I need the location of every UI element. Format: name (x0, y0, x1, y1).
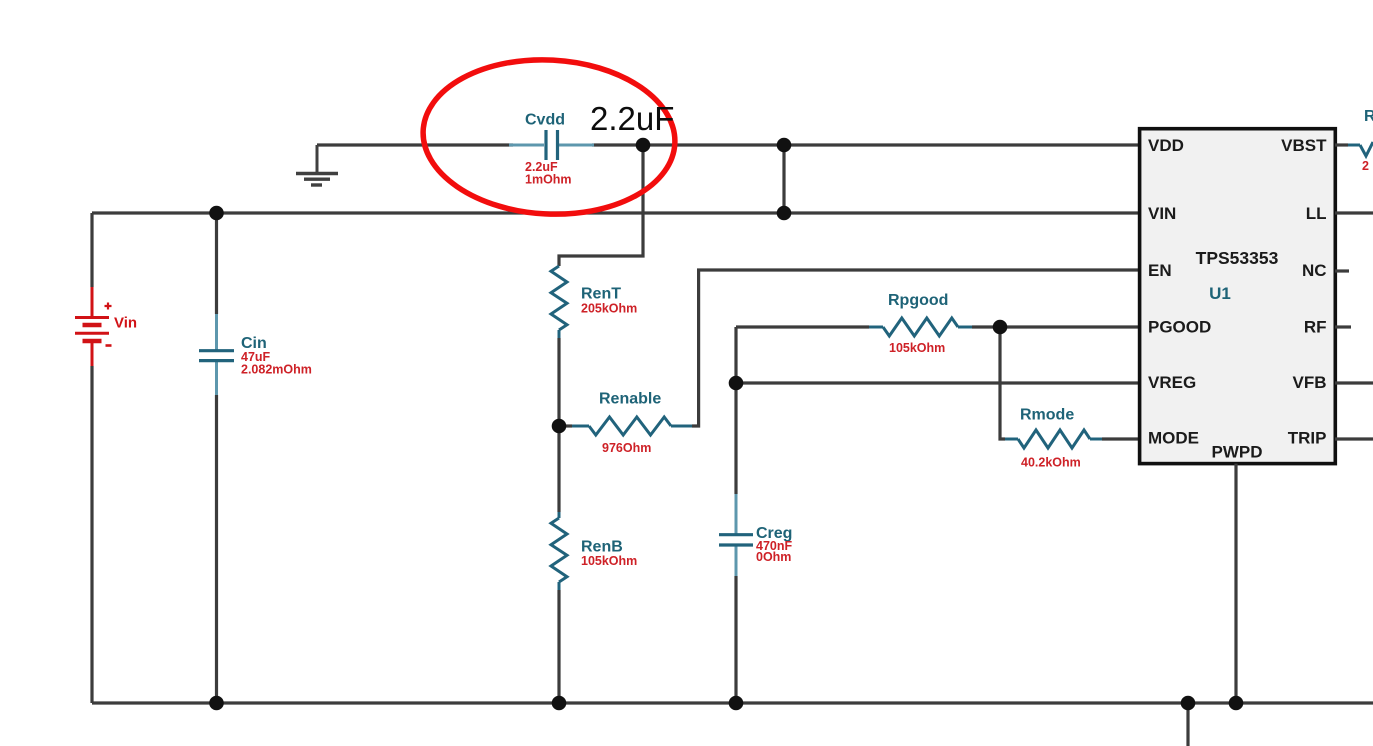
svg-text:LL: LL (1306, 204, 1327, 223)
svg-text:VDD: VDD (1148, 136, 1184, 155)
node junction dots (209, 138, 1243, 711)
wire Rmode to MODE pin (1102, 437, 1140, 440)
wire TRIP stub (1335, 437, 1373, 440)
wire bottom GND net (92, 701, 1373, 704)
resistor Renable (559, 424, 572, 427)
svg-text:976Ohm: 976Ohm (602, 441, 651, 455)
svg-text:NC: NC (1302, 261, 1327, 280)
node PGOOD-Rmode (993, 320, 1008, 335)
voltage source Vin (75, 287, 112, 366)
capacitor Cin (199, 213, 234, 703)
svg-text:PGOOD: PGOOD (1148, 318, 1211, 337)
wire VREG net (736, 381, 1140, 384)
svg-text:VFB: VFB (1293, 373, 1327, 392)
node Creg bottom (729, 696, 744, 711)
svg-text:Rpgood: Rpgood (888, 292, 948, 309)
svg-text:105kOhm: 105kOhm (581, 554, 637, 568)
wire PWPD to GND (1234, 464, 1237, 703)
op-amp U1 IC box (1140, 129, 1336, 464)
node GND stub (1181, 696, 1196, 711)
wire RenT to node (557, 338, 560, 426)
svg-text:Vin: Vin (114, 315, 137, 332)
svg-text:105kOhm: 105kOhm (889, 341, 945, 355)
svg-text:EN: EN (1148, 261, 1172, 280)
wire VDD to VIN tie (782, 145, 785, 213)
node Cin bottom (209, 696, 224, 711)
resistor RenT (551, 266, 567, 330)
svg-text:TRIP: TRIP (1288, 429, 1327, 448)
svg-text:PWPD: PWPD (1212, 443, 1263, 462)
annotation red ellipse (419, 54, 679, 221)
wire LL stub (1335, 211, 1373, 214)
wire VIN net (92, 211, 1140, 214)
node PWPD bottom (1229, 696, 1244, 711)
wire VFB stub (1335, 381, 1373, 384)
svg-text:2: 2 (1362, 159, 1369, 173)
capacitor Creg (719, 494, 753, 703)
svg-text:Renable: Renable (599, 391, 661, 408)
node EN divider (552, 419, 567, 434)
wire RF stub (1335, 325, 1351, 328)
svg-text:1mOhm: 1mOhm (525, 173, 572, 187)
resistor RenB (558, 512, 561, 518)
svg-text:2.082mOhm: 2.082mOhm (241, 363, 312, 377)
wire VDD net top (317, 143, 1140, 146)
wire Renable to EN pin (692, 270, 1140, 426)
svg-text:U1: U1 (1209, 284, 1231, 303)
svg-text:R: R (1364, 108, 1373, 125)
wire RenB leads (557, 426, 560, 703)
node VDD-VIN tie bottom (777, 206, 792, 221)
node VREG-Creg (729, 376, 744, 391)
wire PGOOD branch (736, 327, 1140, 494)
svg-text:Rmode: Rmode (1020, 407, 1074, 424)
node Cvdd-RenT (636, 138, 651, 153)
node VDD-VIN tie top (777, 138, 792, 153)
svg-text:2.2uF: 2.2uF (590, 100, 674, 137)
svg-text:VIN: VIN (1148, 204, 1176, 223)
wire left branch vertical (90, 213, 93, 703)
svg-text:0Ohm: 0Ohm (756, 550, 791, 564)
wire PGOOD node down to Rmode (1000, 327, 1005, 439)
resistor Rmode (1005, 438, 1102, 441)
svg-text:40.2kOhm: 40.2kOhm (1021, 456, 1081, 470)
svg-text:RenB: RenB (581, 539, 623, 556)
wire NC stub (1335, 269, 1349, 272)
wire GND stub below (1186, 703, 1189, 746)
capacitor Cvdd (509, 130, 594, 160)
resistor Rbst partial (1348, 144, 1360, 147)
wire VBST stub (1335, 143, 1348, 146)
svg-text:TPS53353: TPS53353 (1196, 248, 1279, 268)
svg-text:VREG: VREG (1148, 373, 1196, 392)
svg-text:MODE: MODE (1148, 429, 1199, 448)
svg-text:VBST: VBST (1281, 136, 1327, 155)
wire Cvdd junction down to RenT (559, 145, 643, 266)
node Cin top (209, 206, 224, 221)
resistor Rpgood (869, 326, 972, 329)
ground (296, 145, 338, 185)
svg-text:Cvdd: Cvdd (525, 112, 565, 129)
svg-text:RenT: RenT (581, 286, 621, 303)
node RenB bottom (552, 696, 567, 711)
svg-text:205kOhm: 205kOhm (581, 302, 637, 316)
svg-text:RF: RF (1304, 318, 1327, 337)
